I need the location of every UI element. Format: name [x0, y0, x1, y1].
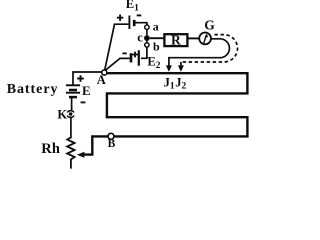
galvanometer G [199, 33, 211, 45]
resistance box R [164, 34, 187, 46]
svg-text:R: R [171, 33, 181, 48]
battery plate long 1 [66, 84, 80, 86]
galvanometer needle [204, 36, 206, 43]
wire battery bottom to key K [71, 97, 73, 110]
battery plus sign [77, 75, 84, 82]
wire E2 left to A [105, 58, 130, 71]
cell E1 plus sign [117, 15, 123, 21]
galvanometer needle arrowhead [205, 34, 208, 38]
svg-text:Battery: Battery [7, 82, 59, 97]
wire battery top to A [73, 72, 102, 85]
key K plug dot [69, 112, 73, 116]
svg-text:E2: E2 [147, 55, 160, 72]
node A [102, 70, 107, 75]
svg-text:K: K [57, 107, 67, 121]
svg-text:a: a [153, 19, 159, 33]
terminal b [145, 43, 149, 47]
key K contacts [67, 111, 74, 118]
wire A to E1 left [105, 24, 129, 71]
node c junction dot [144, 35, 150, 41]
jockey arrow J1 [166, 65, 172, 71]
node B [108, 133, 114, 139]
svg-text:J1: J1 [164, 75, 175, 91]
terminal a [145, 25, 149, 29]
dashed wire to J2 [181, 35, 238, 62]
jockey arrow J2 [178, 65, 184, 71]
svg-text:b: b [153, 39, 160, 53]
svg-text:J2: J2 [175, 75, 186, 91]
battery plate short 2 [69, 96, 77, 99]
cell E1 negative plate [133, 20, 136, 26]
rheostat wiper arrowhead [77, 152, 85, 158]
svg-text:c: c [137, 30, 143, 44]
wire c to R [150, 37, 165, 39]
wire b down to E2 right [141, 47, 147, 58]
cell E1 positive plate [128, 16, 130, 30]
svg-text:G: G [204, 17, 215, 32]
battery minus sign [81, 101, 86, 103]
wire K to rheostat [70, 118, 72, 138]
jockey arrow J2 stem [180, 62, 182, 67]
solid wire G to J1 (U-turn) [169, 39, 230, 67]
svg-text:B: B [108, 138, 116, 150]
potentiometer wire serpentine [84, 73, 247, 154]
wire E1 right to terminal a [136, 23, 147, 25]
svg-text:E: E [82, 83, 91, 98]
cell E2 minus sign [122, 52, 126, 54]
cell E1 minus sign [137, 14, 142, 16]
svg-text:E1: E1 [126, 0, 139, 14]
rheostat Rh zigzag [67, 137, 74, 168]
wire a to c [146, 29, 148, 35]
wire R to G [187, 37, 199, 39]
cell E2 plus sign [132, 52, 138, 58]
wire c to b [146, 41, 148, 43]
battery plate short 1 [69, 89, 77, 92]
svg-text:Rh: Rh [41, 141, 60, 157]
svg-text:A: A [97, 73, 106, 87]
cell E2 positive plate [138, 50, 140, 65]
battery plate long 2 [66, 92, 80, 94]
cell E2 negative plate [130, 53, 133, 62]
